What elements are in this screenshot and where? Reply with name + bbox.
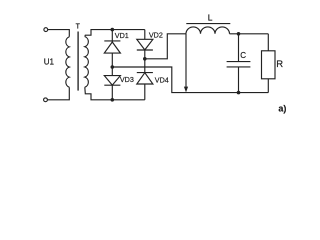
wire	[111, 85, 113, 100]
svg-text:L: L	[208, 13, 213, 23]
wire	[144, 50, 146, 73]
wire inductor to resistor top	[230, 33, 269, 35]
diode VD4	[137, 72, 153, 74]
wire	[111, 30, 113, 42]
inductor core line	[186, 23, 230, 25]
transformer T primary winding	[66, 37, 69, 87]
capacitor C plates	[227, 61, 251, 63]
terminal top-left	[44, 28, 48, 32]
diode VD2	[137, 39, 153, 50]
diode VD1	[104, 40, 120, 42]
svg-text:VD3: VD3	[120, 75, 134, 84]
wire minus output to bottom load rail	[112, 67, 268, 93]
wire secondary top to bridge top rail	[85, 30, 145, 37]
wire plus output to inductor	[145, 34, 186, 59]
svg-text:a): a)	[278, 103, 286, 113]
svg-text:VD2: VD2	[149, 30, 163, 39]
junction node bottom rail	[111, 98, 115, 102]
arrow rectified voltage	[185, 34, 187, 88]
wire	[111, 53, 113, 76]
wire secondary bottom to bridge bottom rail	[85, 87, 145, 100]
svg-text:T: T	[76, 23, 81, 30]
resistor R body	[262, 51, 276, 79]
svg-text:C: C	[240, 51, 246, 60]
resistor R leads	[267, 34, 269, 51]
junction node cap top	[237, 32, 241, 36]
junction node top rail	[111, 28, 115, 32]
svg-text:R: R	[276, 59, 283, 70]
transformer T secondary winding	[85, 37, 89, 88]
capacitor C leads	[238, 34, 240, 61]
wire primary top	[48, 30, 70, 37]
diode VD3	[104, 76, 120, 86]
svg-text:U1: U1	[44, 58, 55, 67]
wire primary bottom	[48, 87, 70, 100]
junction node cap bottom	[237, 91, 241, 95]
junction node left mid	[111, 65, 115, 69]
junction node right mid	[143, 57, 147, 61]
svg-text:VD1: VD1	[115, 31, 129, 40]
wire	[144, 30, 146, 40]
terminal bottom-left	[44, 98, 48, 102]
svg-text:VD4: VD4	[155, 76, 169, 85]
wire	[144, 84, 146, 100]
transformer core	[77, 32, 79, 91]
inductor L	[186, 27, 230, 34]
